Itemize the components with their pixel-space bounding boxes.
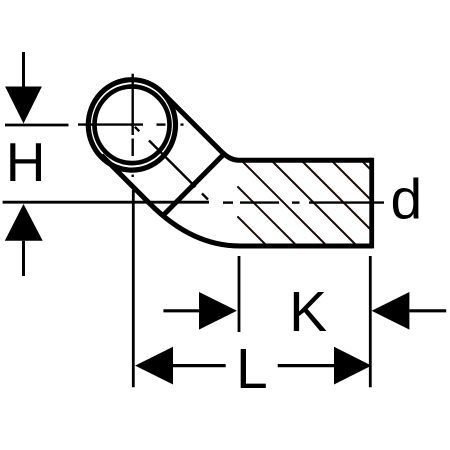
- extension line right (K/L): [369, 256, 372, 387]
- svg-text:H: H: [6, 131, 46, 193]
- circle horizontal centerline: [78, 123, 184, 125]
- dimension H arrow up: [5, 204, 43, 276]
- svg-text:K: K: [289, 280, 327, 344]
- extension line middle (K): [238, 256, 241, 332]
- 45-degree pipe axis centerline: [135, 127, 208, 200]
- dimension L arrow right: [278, 347, 372, 385]
- pipe upper outline: tangent line A + top edge: [163, 94, 372, 161]
- circle vertical centerline: [131, 74, 133, 177]
- dimension K arrow right: [163, 292, 237, 330]
- inner circle (bore): [95, 87, 170, 164]
- dimension K arrow left: [372, 292, 447, 330]
- miter joint line: [162, 155, 224, 217]
- pipe lower outline: tangent line B + bend fillet + bottom edge: [102, 155, 373, 246]
- svg-text:d: d: [391, 167, 423, 231]
- dimension H arrow down: [5, 52, 42, 124]
- dimension L arrow left: [135, 347, 226, 385]
- extension line left (L): [132, 190, 135, 387]
- dimension H reference line top: [5, 124, 69, 127]
- horizontal pipe axis centerline to label d: [223, 201, 384, 203]
- outer circle (socket opening): [88, 80, 175, 170]
- pipe right edge: [369, 158, 374, 249]
- hatch section lines: [238, 162, 370, 245]
- dimension H reference line bottom: [3, 201, 209, 204]
- svg-text:L: L: [236, 337, 268, 401]
